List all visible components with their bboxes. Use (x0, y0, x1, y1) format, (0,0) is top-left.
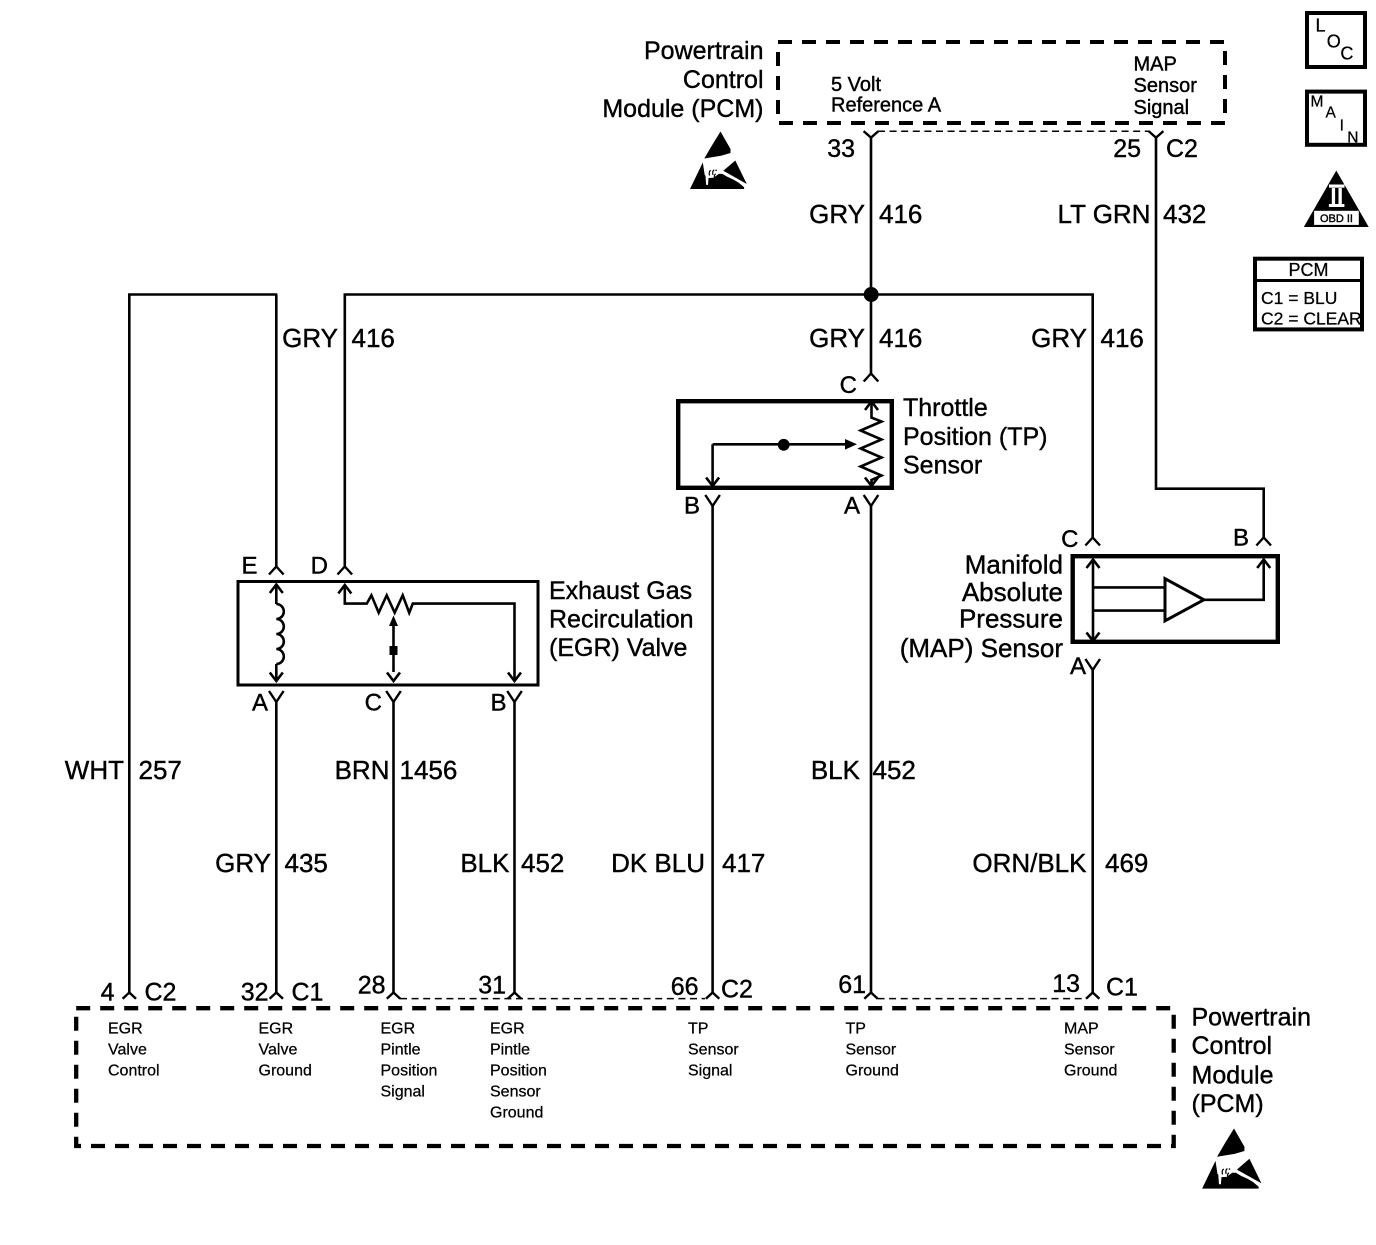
svg-text:EGR: EGR (108, 1021, 143, 1038)
svg-text:B: B (1233, 525, 1249, 552)
svg-text:416: 416 (879, 199, 922, 229)
svg-text:Module (PCM): Module (PCM) (602, 95, 763, 123)
svg-text:TP: TP (846, 1021, 866, 1038)
svg-text:A: A (252, 690, 268, 717)
svg-text:(PCM): (PCM) (1192, 1090, 1264, 1118)
svg-text:MAP: MAP (1134, 54, 1177, 76)
svg-text:C: C (1061, 526, 1078, 553)
svg-text:Ground: Ground (490, 1105, 543, 1122)
svg-text:257: 257 (139, 755, 182, 785)
svg-text:33: 33 (827, 135, 855, 163)
svg-text:Powertrain: Powertrain (644, 37, 764, 65)
svg-text:417: 417 (722, 848, 765, 878)
svg-text:Control: Control (683, 66, 764, 94)
svg-text:OBD II: OBD II (1320, 213, 1353, 225)
svg-text:Manifold: Manifold (965, 550, 1063, 580)
svg-text:Sensor: Sensor (490, 1084, 541, 1101)
svg-text:BLK: BLK (460, 848, 510, 878)
svg-text:TP: TP (688, 1021, 708, 1038)
svg-text:GRY: GRY (809, 323, 865, 353)
svg-text:C: C (365, 690, 382, 717)
svg-text:Ground: Ground (846, 1063, 899, 1080)
svg-text:Position (TP): Position (TP) (903, 423, 1047, 451)
svg-text:C: C (840, 372, 857, 399)
svg-text:Signal: Signal (688, 1063, 732, 1080)
svg-text:452: 452 (521, 848, 564, 878)
svg-text:25: 25 (1113, 135, 1141, 163)
svg-text:1456: 1456 (400, 755, 458, 785)
svg-text:Sensor: Sensor (1134, 75, 1198, 97)
svg-text:BLK: BLK (811, 755, 861, 785)
svg-text:Ground: Ground (259, 1063, 312, 1080)
svg-text:Control: Control (108, 1063, 160, 1080)
svg-text:Ground: Ground (1064, 1063, 1117, 1080)
svg-text:N: N (1347, 129, 1358, 146)
svg-text:WHT: WHT (65, 755, 124, 785)
svg-text:432: 432 (1163, 199, 1206, 229)
svg-text:C: C (1340, 44, 1353, 64)
svg-text:28: 28 (358, 972, 386, 1000)
svg-text:Pintle: Pintle (490, 1042, 530, 1059)
svg-text:Sensor: Sensor (688, 1042, 739, 1059)
svg-text:Position: Position (381, 1063, 438, 1080)
svg-text:Position: Position (490, 1063, 547, 1080)
svg-text:Module: Module (1192, 1062, 1274, 1090)
svg-text:Signal: Signal (381, 1084, 425, 1101)
svg-text:416: 416 (352, 323, 395, 353)
svg-text:C1: C1 (1106, 974, 1138, 1002)
svg-text:MAP: MAP (1064, 1021, 1099, 1038)
svg-text:Powertrain: Powertrain (1192, 1004, 1312, 1032)
svg-text:A: A (844, 493, 860, 520)
svg-text:O: O (1327, 31, 1341, 51)
svg-text:I: I (1340, 118, 1344, 135)
svg-text:Valve: Valve (108, 1042, 147, 1059)
svg-text:Valve: Valve (259, 1042, 298, 1059)
svg-text:A: A (1070, 653, 1086, 680)
svg-text:Pressure: Pressure (959, 604, 1063, 634)
svg-text:Signal: Signal (1134, 97, 1190, 119)
svg-text:C1: C1 (292, 979, 324, 1007)
svg-text:Reference A: Reference A (831, 95, 942, 117)
svg-text:Sensor: Sensor (903, 452, 982, 480)
svg-text:Recirculation: Recirculation (549, 606, 694, 634)
svg-text:61: 61 (838, 971, 866, 999)
svg-text:Sensor: Sensor (1064, 1042, 1115, 1059)
svg-text:5 Volt: 5 Volt (831, 74, 881, 96)
svg-text:BRN: BRN (335, 755, 390, 785)
svg-text:Control: Control (1192, 1032, 1273, 1060)
svg-text:EGR: EGR (490, 1021, 525, 1038)
svg-text:Absolute: Absolute (962, 577, 1063, 607)
svg-text:452: 452 (873, 755, 916, 785)
svg-text:B: B (684, 493, 700, 520)
svg-text:13: 13 (1052, 970, 1080, 998)
svg-text:EGR: EGR (259, 1021, 294, 1038)
svg-text:GRY: GRY (809, 199, 865, 229)
svg-text:GRY: GRY (1031, 323, 1087, 353)
svg-text:4: 4 (101, 979, 115, 1007)
svg-text:416: 416 (1101, 323, 1144, 353)
svg-text:DK BLU: DK BLU (611, 848, 705, 878)
svg-text:A: A (1326, 105, 1337, 122)
svg-text:66: 66 (671, 973, 699, 1001)
svg-text:(MAP) Sensor: (MAP) Sensor (900, 633, 1064, 663)
svg-text:Throttle: Throttle (903, 394, 988, 422)
svg-text:L: L (1316, 16, 1326, 36)
svg-text:GRY: GRY (215, 848, 271, 878)
svg-text:C2 = CLEAR: C2 = CLEAR (1261, 309, 1362, 329)
svg-text:EGR: EGR (381, 1021, 416, 1038)
svg-text:C2: C2 (145, 979, 177, 1007)
svg-text:32: 32 (241, 979, 269, 1007)
svg-text:(EGR) Valve: (EGR) Valve (549, 634, 687, 662)
svg-text:B: B (490, 690, 506, 717)
svg-text:C2: C2 (721, 976, 753, 1004)
svg-text:ORN/BLK: ORN/BLK (972, 848, 1087, 878)
svg-text:PCM: PCM (1289, 260, 1329, 280)
svg-text:Exhaust Gas: Exhaust Gas (549, 577, 692, 605)
svg-text:469: 469 (1105, 848, 1148, 878)
svg-text:C1 = BLU: C1 = BLU (1261, 288, 1337, 308)
svg-text:Sensor: Sensor (846, 1042, 897, 1059)
svg-text:GRY: GRY (282, 323, 338, 353)
svg-text:Pintle: Pintle (381, 1042, 421, 1059)
svg-text:416: 416 (879, 323, 922, 353)
svg-text:M: M (1311, 93, 1324, 110)
svg-text:D: D (311, 553, 328, 580)
svg-text:31: 31 (478, 972, 506, 1000)
svg-text:E: E (241, 553, 257, 580)
svg-text:C2: C2 (1166, 135, 1198, 163)
svg-text:LT GRN: LT GRN (1058, 199, 1151, 229)
svg-text:435: 435 (285, 848, 328, 878)
